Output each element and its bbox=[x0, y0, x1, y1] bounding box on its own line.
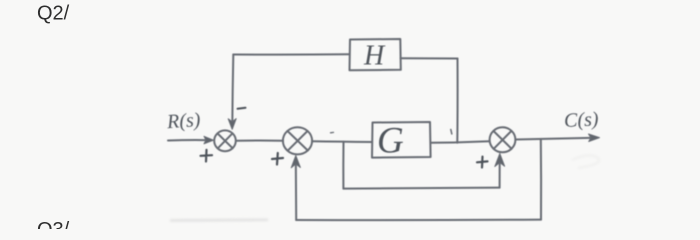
X inside S1 bbox=[218, 133, 233, 148]
minus sign above S1 bbox=[238, 108, 246, 109]
summing junction S3 bbox=[490, 127, 516, 152]
wire: output takeoff down (vertical at x 541) bbox=[540, 139, 542, 220]
svg-text:C(s): C(s) bbox=[564, 108, 600, 132]
plus sign at S3 bbox=[477, 157, 488, 168]
wire: S2 to block G bbox=[312, 140, 372, 143]
wire: vertical down into S1 top bbox=[232, 55, 233, 125]
arrowhead into S2 bottom bbox=[291, 156, 300, 168]
X inside S3 bbox=[494, 131, 512, 149]
wire: bottom feedback up into S2 bbox=[295, 159, 297, 220]
smudge: faint curved mark below C(s) bbox=[572, 155, 599, 168]
arrowhead into S1 left bbox=[204, 136, 214, 144]
svg-text:Q2/: Q2/ bbox=[37, 3, 70, 25]
wire: H output right segment bbox=[401, 57, 458, 59]
wire: middle feedforward up into S3 bbox=[499, 158, 501, 188]
wire: takeoff up to H (vertical at x 457) bbox=[456, 59, 458, 143]
wire: bottom feedback horizontal bbox=[296, 219, 541, 222]
smudge: faint erased line left of bottom feedback bbox=[170, 219, 268, 222]
wire: block G to S3 bbox=[431, 141, 490, 143]
arrowhead output bbox=[589, 134, 600, 142]
plus sign at S2 bbox=[272, 153, 283, 165]
X inside S2 bbox=[288, 131, 308, 151]
arrowhead into S1 top bbox=[228, 119, 236, 130]
pen tick at H takeoff point bbox=[451, 130, 452, 134]
summing junction S2 bbox=[283, 127, 312, 154]
wire: H to left vertical (top horizontal) bbox=[233, 53, 349, 55]
wire: middle feedforward horizontal bbox=[343, 188, 499, 189]
svg-text:R(s): R(s) bbox=[165, 109, 201, 133]
plus sign at S1 bbox=[201, 150, 213, 162]
svg-text:H: H bbox=[363, 41, 386, 72]
block H box bbox=[350, 39, 401, 70]
wire: input line R(s) to S1 bbox=[168, 139, 211, 141]
wire: S3 to output C(s) bbox=[515, 138, 596, 140]
svg-text:Q3/: Q3/ bbox=[37, 219, 70, 229]
svg-text:G: G bbox=[377, 121, 404, 162]
block G box bbox=[372, 122, 431, 158]
arrowhead into S3 bottom bbox=[495, 154, 505, 167]
pen tick above wire near middle takeoff bbox=[331, 131, 334, 133]
wire: middle takeoff down (vertical at x 343) bbox=[342, 142, 344, 189]
summing junction S1 bbox=[214, 130, 236, 151]
wire: S1 to S2 bbox=[236, 140, 283, 142]
